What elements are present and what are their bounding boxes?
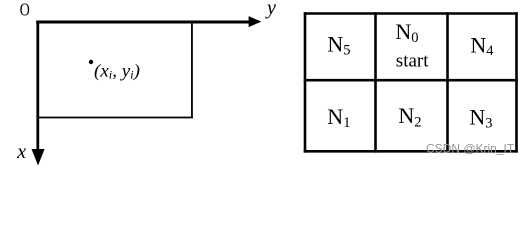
grid table vertical divider 2 [446,12,449,152]
rectangle bottom edge [37,117,193,119]
point dot [89,60,93,64]
grid table middle horizontal divider [304,79,518,82]
grid table outer border left [304,12,307,152]
svg-text:start: start [396,51,429,72]
svg-text:O: O [20,0,30,19]
y-axis line [36,21,250,24]
svg-text:x: x [16,141,26,163]
grid table outer border right [515,12,518,152]
grid table vertical divider 1 [374,12,377,152]
x-axis line [36,21,39,150]
y-axis arrowhead [249,16,262,27]
svg-text:y: y [265,0,276,19]
svg-text:CSDN @Krin_IT: CSDN @Krin_IT [426,142,515,156]
x-axis arrowhead [32,149,45,166]
rectangle right edge [191,23,193,118]
grid table outer border top [304,12,518,15]
svg-text:(xi, yi): (xi, yi) [94,61,140,82]
grid table outer border bottom [304,150,518,153]
